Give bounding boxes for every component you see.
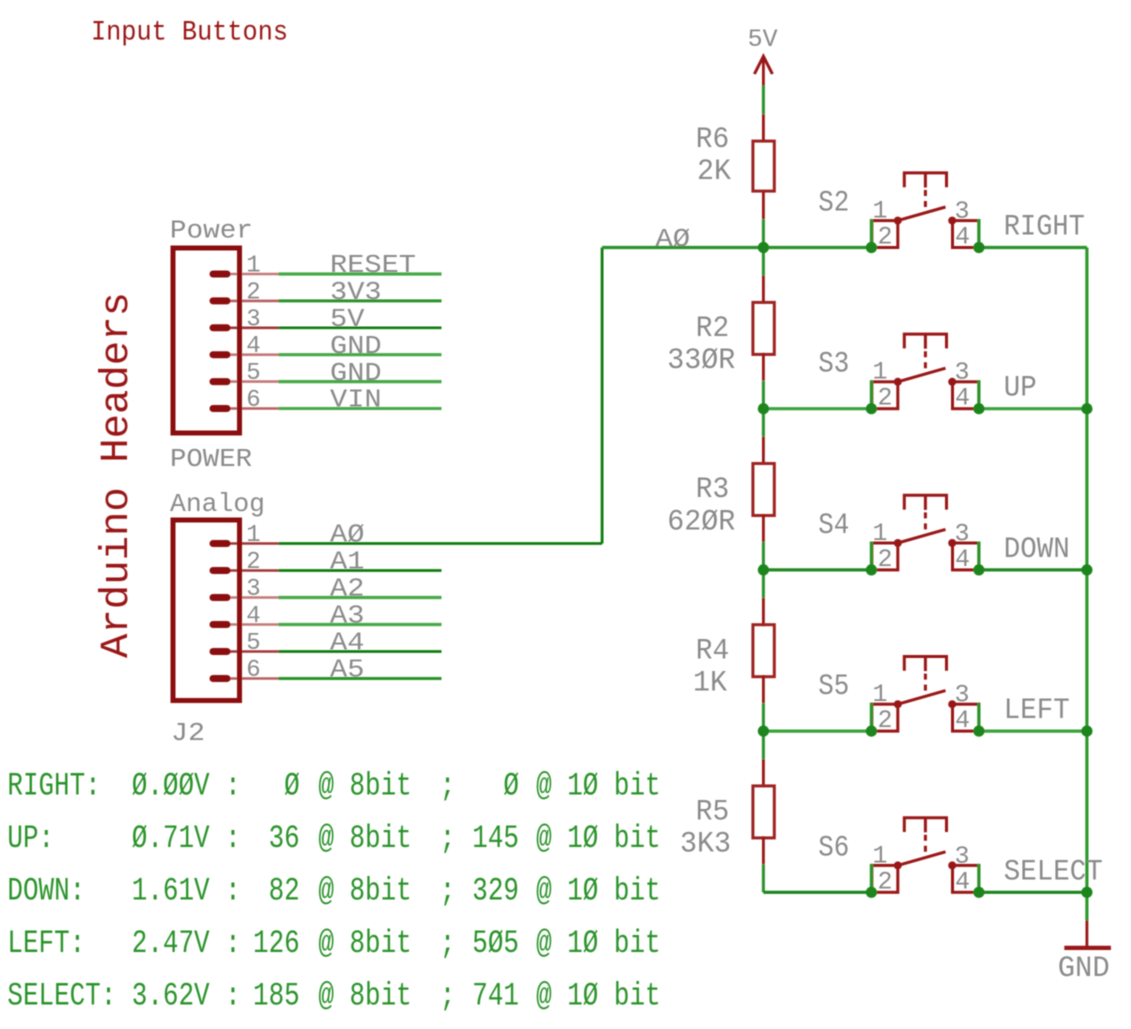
- svg-text:1.61V: 1.61V: [132, 873, 210, 910]
- svg-text:R2: R2: [696, 312, 729, 346]
- svg-text:1Ø: 1Ø: [567, 925, 598, 962]
- svg-text:3V3: 3V3: [330, 277, 382, 307]
- svg-text:1K: 1K: [693, 667, 727, 701]
- wire resistor R4 to node: [762, 703, 765, 731]
- svg-text:@: @: [318, 873, 334, 910]
- wire right bus vertical: [1085, 248, 1088, 921]
- transistor-free switch S3 group: [871, 334, 979, 409]
- svg-text:185: 185: [253, 978, 300, 1015]
- resistor R2 body: [753, 302, 774, 354]
- svg-text:GND: GND: [330, 358, 382, 388]
- wire 5V vertical to R6: [762, 86, 765, 115]
- svg-text:AØ: AØ: [655, 224, 690, 254]
- wire net A0 (J2 pin 1): [279, 542, 603, 545]
- svg-text:4: 4: [955, 545, 970, 574]
- svg-text:;: ;: [440, 873, 456, 910]
- svg-text:8bit: 8bit: [350, 873, 412, 910]
- svg-text:1: 1: [246, 522, 260, 549]
- svg-text:5V: 5V: [330, 304, 365, 334]
- svg-text:2: 2: [877, 867, 892, 896]
- svg-text::: :: [225, 768, 241, 805]
- svg-text:AØ: AØ: [330, 520, 364, 550]
- junction dots: [758, 242, 1093, 898]
- svg-text:R5: R5: [696, 796, 729, 830]
- svg-text:UP: UP: [1004, 372, 1037, 406]
- svg-text:LEFT:: LEFT:: [7, 925, 85, 962]
- wire node to resistor R3: [762, 409, 765, 437]
- resistor R3 body: [753, 464, 774, 516]
- wire row SELECT left segment: [763, 891, 871, 894]
- wire net A2 (J2 pin 3): [279, 596, 442, 599]
- svg-text:@: @: [536, 873, 552, 910]
- svg-text:RESET: RESET: [330, 250, 416, 280]
- sheet label Arduino Headers (rotated): [95, 292, 140, 658]
- svg-text:bit: bit: [614, 768, 661, 805]
- svg-text:bit: bit: [614, 873, 661, 910]
- svg-text:8bit: 8bit: [350, 768, 412, 805]
- svg-text:1: 1: [872, 519, 887, 548]
- svg-text:;: ;: [440, 768, 456, 805]
- wire net A0 riser: [601, 248, 604, 544]
- resistor R2 pin top: [762, 276, 765, 304]
- svg-text:@: @: [536, 768, 552, 805]
- svg-text:POWER: POWER: [170, 444, 252, 474]
- wire row DOWN left segment: [763, 568, 871, 571]
- wire net GND (POWER pin 5): [279, 380, 442, 383]
- wire node to resistor R2: [762, 248, 765, 276]
- wire node to resistor R4: [762, 570, 765, 598]
- transistor-free switch S2 group: [871, 173, 979, 248]
- svg-text:1: 1: [872, 197, 887, 226]
- wire row LEFT right segment: [979, 729, 1087, 732]
- wire row UP right segment: [979, 407, 1087, 410]
- svg-text:@: @: [318, 820, 334, 857]
- wire net GND (POWER pin 4): [279, 353, 442, 356]
- connector J2 pin numbers 1-6: [246, 522, 260, 684]
- resistor R4 body: [753, 625, 774, 677]
- svg-text:6: 6: [246, 387, 260, 414]
- wire row UP left segment: [763, 407, 871, 410]
- svg-text:LEFT: LEFT: [1004, 694, 1070, 728]
- svg-text:4: 4: [955, 706, 970, 735]
- wire net A5 (J2 pin 6): [279, 677, 442, 680]
- svg-text:RIGHT:: RIGHT:: [7, 768, 100, 805]
- connector J2 box: [173, 520, 240, 701]
- svg-text:62ØR: 62ØR: [667, 505, 735, 539]
- svg-text:3.62V: 3.62V: [132, 978, 210, 1015]
- resistor R4 pin top: [762, 598, 765, 626]
- svg-text:A1: A1: [330, 547, 364, 577]
- connector POWER pin stubs and contacts: [213, 274, 279, 409]
- svg-text:Ø.ØØV: Ø.ØØV: [132, 768, 210, 805]
- svg-text:Power: Power: [170, 216, 253, 246]
- svg-text:@: @: [318, 925, 334, 962]
- connector POWER pin numbers 1-6: [246, 253, 260, 415]
- svg-text:R4: R4: [696, 635, 729, 669]
- svg-text:4: 4: [955, 384, 970, 413]
- svg-text:33ØR: 33ØR: [667, 344, 735, 378]
- svg-text:Ø: Ø: [284, 768, 300, 805]
- svg-text:1Ø: 1Ø: [567, 873, 598, 910]
- svg-text:bit: bit: [614, 925, 661, 962]
- svg-text:S6: S6: [818, 831, 849, 865]
- resistor R5 pin bottom: [762, 836, 765, 864]
- wire row DOWN right segment: [979, 568, 1087, 571]
- svg-text:A5: A5: [330, 655, 364, 685]
- note line SELECT voltage table: [7, 978, 660, 1015]
- svg-text:@: @: [318, 768, 334, 805]
- resistor R6 pin bottom: [762, 192, 765, 219]
- svg-text:126: 126: [253, 925, 300, 962]
- svg-text:RIGHT: RIGHT: [1004, 211, 1085, 245]
- svg-text:1: 1: [872, 358, 887, 387]
- svg-text:8bit: 8bit: [350, 925, 412, 962]
- wire resistor R3 to node: [762, 542, 765, 570]
- svg-text::: :: [225, 978, 241, 1015]
- resistor R6 body: [753, 141, 774, 191]
- note line RIGHT voltage table: [7, 768, 660, 805]
- resistor R3 pin top: [762, 437, 765, 465]
- svg-text:5Ø5: 5Ø5: [472, 925, 519, 962]
- svg-text:2: 2: [246, 549, 260, 576]
- svg-text:J2: J2: [171, 718, 205, 748]
- svg-text:2.47V: 2.47V: [132, 925, 210, 962]
- svg-text:R3: R3: [696, 473, 729, 507]
- transistor-free switch S4 group: [871, 495, 979, 570]
- svg-text:1Ø: 1Ø: [567, 768, 598, 805]
- wire resistor R5 to node: [762, 864, 765, 892]
- svg-text:3K3: 3K3: [680, 828, 731, 862]
- svg-text:5: 5: [246, 630, 260, 657]
- wire row LEFT left segment: [763, 729, 871, 732]
- svg-text:1Ø: 1Ø: [567, 820, 598, 857]
- resistor R3 pin bottom: [762, 514, 765, 542]
- svg-text:@: @: [536, 925, 552, 962]
- svg-text:Ø: Ø: [503, 768, 519, 805]
- svg-text:82: 82: [269, 873, 300, 910]
- wire node to resistor R5: [762, 731, 765, 759]
- wire net 5V (POWER pin 3): [279, 326, 442, 329]
- svg-text:DOWN: DOWN: [1004, 533, 1070, 567]
- svg-text:2K: 2K: [697, 155, 731, 189]
- svg-text:@: @: [536, 978, 552, 1015]
- transistor-free switch S5 group: [871, 657, 979, 732]
- wire net A4 (J2 pin 5): [279, 650, 442, 653]
- resistor R6 pin top: [762, 114, 765, 141]
- svg-text:Input Buttons: Input Buttons: [91, 18, 288, 49]
- svg-text:8bit: 8bit: [350, 978, 412, 1015]
- svg-text::: :: [225, 873, 241, 910]
- svg-text:A2: A2: [330, 574, 364, 604]
- note line UP voltage table: [7, 820, 660, 857]
- svg-text:5V: 5V: [748, 25, 778, 54]
- svg-text:6: 6: [246, 657, 260, 684]
- svg-text:1Ø: 1Ø: [567, 978, 598, 1015]
- svg-text:2: 2: [877, 223, 892, 252]
- svg-text:SELECT:: SELECT:: [7, 978, 116, 1015]
- svg-text:A3: A3: [330, 601, 364, 631]
- svg-text:3: 3: [246, 576, 260, 603]
- svg-text:3: 3: [246, 306, 260, 333]
- wire row SELECT right segment: [979, 891, 1087, 894]
- svg-text:bit: bit: [614, 820, 661, 857]
- wire R6 to node A0: [762, 219, 765, 247]
- wire row RIGHT right segment: [979, 246, 1087, 249]
- svg-text:S2: S2: [818, 187, 849, 221]
- svg-text:S5: S5: [818, 670, 849, 704]
- note line LEFT voltage table: [7, 925, 660, 962]
- svg-text:4: 4: [246, 333, 260, 360]
- svg-text:4: 4: [955, 867, 970, 896]
- svg-text:S4: S4: [818, 509, 849, 543]
- connector J2 Analog pin stubs and contacts: [213, 544, 279, 679]
- svg-text:2: 2: [246, 279, 260, 306]
- svg-text:@: @: [536, 820, 552, 857]
- resistor R2 pin bottom: [762, 353, 765, 381]
- connector POWER box: [173, 248, 240, 433]
- svg-text:1: 1: [246, 253, 260, 280]
- resistor R5 pin top: [762, 759, 765, 787]
- svg-text:GND: GND: [1058, 952, 1110, 986]
- svg-text:;: ;: [440, 820, 456, 857]
- wire net A3 (J2 pin 4): [279, 623, 442, 626]
- svg-text::: :: [225, 820, 241, 857]
- svg-text:2: 2: [877, 384, 892, 413]
- ground GND symbol: [1064, 921, 1111, 948]
- svg-text:SELECT: SELECT: [1004, 855, 1103, 889]
- svg-text:UP:: UP:: [7, 820, 54, 857]
- transistor-free switch S6 group: [871, 818, 979, 893]
- svg-text:S3: S3: [818, 348, 849, 382]
- svg-text:5: 5: [246, 360, 260, 387]
- svg-text:;: ;: [440, 925, 456, 962]
- svg-text:Ø.71V: Ø.71V: [132, 820, 210, 857]
- svg-text:329: 329: [472, 873, 519, 910]
- svg-text:GND: GND: [330, 331, 382, 361]
- wire net A1 (J2 pin 2): [279, 569, 442, 572]
- svg-text:bit: bit: [614, 978, 661, 1015]
- svg-text:1: 1: [872, 680, 887, 709]
- power symbol 5V arrow: [754, 56, 772, 87]
- svg-text:A4: A4: [330, 628, 364, 658]
- svg-text:4: 4: [955, 223, 970, 252]
- svg-text:DOWN:: DOWN:: [7, 873, 85, 910]
- svg-text:1: 1: [872, 841, 887, 870]
- svg-text:R6: R6: [696, 123, 729, 157]
- svg-text:36: 36: [269, 820, 300, 857]
- wire resistor R2 to node: [762, 381, 765, 409]
- svg-text:@: @: [318, 978, 334, 1015]
- wire net 3V3 (POWER pin 2): [279, 299, 442, 302]
- svg-text:2: 2: [877, 706, 892, 735]
- note line DOWN voltage table: [7, 873, 660, 910]
- resistor R5 body: [753, 786, 774, 838]
- svg-text:145: 145: [472, 820, 519, 857]
- svg-text::: :: [225, 925, 241, 962]
- svg-text:Analog: Analog: [170, 489, 265, 519]
- svg-text:VIN: VIN: [330, 385, 382, 415]
- resistor R4 pin bottom: [762, 675, 765, 703]
- svg-text:2: 2: [877, 545, 892, 574]
- svg-text:741: 741: [472, 978, 519, 1015]
- svg-text:8bit: 8bit: [350, 820, 412, 857]
- svg-text:4: 4: [246, 603, 260, 630]
- wire net RESET (POWER pin 1): [279, 272, 442, 275]
- wire net VIN (POWER pin 6): [279, 407, 442, 410]
- svg-text:;: ;: [440, 978, 456, 1015]
- wire row RIGHT left segment: [602, 246, 871, 249]
- svg-text:Arduino Headers: Arduino Headers: [95, 292, 140, 658]
